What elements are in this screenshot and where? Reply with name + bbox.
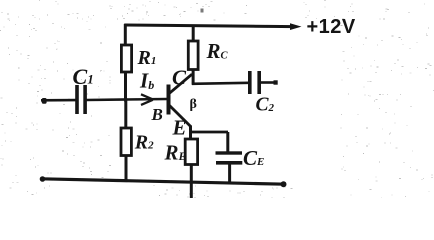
svg-text:C: C <box>172 66 187 90</box>
resistor R2 <box>121 128 131 156</box>
node input terminal <box>42 98 47 104</box>
svg-text:C1: C1 <box>73 64 94 89</box>
wire emitter vertical <box>189 126 192 141</box>
capacitor C1 <box>75 85 79 114</box>
wire bottom rail <box>42 179 286 184</box>
wire +12V arrowhead <box>290 23 302 30</box>
wire R1 top lead <box>124 24 127 47</box>
resistor RC <box>188 41 198 70</box>
wire top rail <box>124 25 295 27</box>
node speck above rail <box>201 9 204 13</box>
capacitor CE bottom plate <box>216 161 242 165</box>
svg-text:R2: R2 <box>134 132 154 154</box>
wire Ib arrowhead <box>141 94 153 105</box>
wire collector to C2 <box>192 83 249 84</box>
capacitor CE top plate <box>216 151 243 154</box>
svg-text:β: β <box>190 97 197 112</box>
wire CE bottom lead <box>228 165 231 184</box>
wire emitter branch to CE <box>189 131 228 134</box>
node bottom rail left end <box>40 176 46 182</box>
wire C2 output <box>261 81 277 84</box>
svg-text:RC: RC <box>206 39 229 63</box>
node output end <box>274 80 278 84</box>
svg-text:R1: R1 <box>137 47 157 69</box>
wire base segment <box>87 99 167 100</box>
resistor R1 <box>121 45 131 72</box>
wire RE bottom lead <box>190 165 193 199</box>
wire R2 top lead <box>124 100 127 129</box>
transistor Q1 collector diagonal <box>170 74 193 93</box>
wire CE top lead <box>226 132 229 152</box>
svg-text:C2: C2 <box>256 95 275 116</box>
wire RC top lead <box>192 25 195 42</box>
svg-text:CE: CE <box>243 146 264 170</box>
transistor Q1 base bar <box>167 85 171 115</box>
node bottom rail right end <box>281 181 287 187</box>
svg-text:B: B <box>151 105 163 124</box>
wire R1 bottom lead <box>124 72 127 102</box>
wire RC bottom lead / collector node <box>192 69 195 85</box>
wire input segment left <box>41 99 77 102</box>
capacitor C2 <box>248 71 252 94</box>
svg-text:+12V: +12V <box>307 16 356 38</box>
wire R2 bottom lead <box>125 156 128 182</box>
transistor Q1 emitter diagonal <box>170 106 191 127</box>
svg-text:E: E <box>172 116 187 140</box>
svg-text:RE: RE <box>164 141 187 165</box>
resistor RE <box>185 139 197 165</box>
svg-text:Ib: Ib <box>139 69 154 93</box>
